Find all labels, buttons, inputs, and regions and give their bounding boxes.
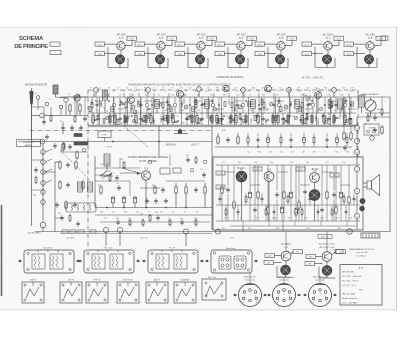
- svg-text:C92: C92: [248, 228, 251, 230]
- capacitor: [327, 117, 330, 119]
- svg-text:Tr 8: Tr 8: [368, 36, 373, 40]
- svg-text:C21: C21: [279, 87, 282, 89]
- resistor: [195, 103, 197, 108]
- wire to rails: [254, 165, 256, 206]
- junction dot: [119, 104, 120, 105]
- resistor: [185, 187, 187, 193]
- resistor: [298, 202, 300, 208]
- mid-left dots: [106, 207, 107, 208]
- resistor dark: [109, 116, 111, 123]
- trimmer capacitor: [173, 103, 177, 107]
- capacitor: [229, 116, 232, 118]
- svg-text:470: 470: [160, 212, 163, 214]
- capacitor: [142, 119, 145, 121]
- svg-text:56: 56: [288, 218, 290, 220]
- svg-text:C1: C1: [49, 99, 51, 101]
- capacitor: [189, 114, 192, 116]
- resistor: [82, 182, 84, 188]
- svg-text:7mV: 7mV: [98, 54, 103, 56]
- coil small: [219, 119, 222, 124]
- capacitor: [148, 107, 151, 109]
- capacitor: [194, 188, 198, 190]
- transistor: [324, 42, 332, 50]
- right column wires: [389, 97, 391, 232]
- junction dot: [200, 119, 201, 120]
- arrow into mixer: [122, 168, 139, 173]
- wire stub: [280, 133, 282, 136]
- transistor: [309, 190, 320, 201]
- capacitor: [94, 118, 97, 120]
- frame dash-dot right vertical: [357, 90, 359, 157]
- wire to rails: [283, 165, 285, 191]
- wires above Tr blocks: [285, 232, 287, 252]
- junction node o: [354, 188, 359, 193]
- trimmer: [132, 119, 135, 122]
- resistor: [247, 138, 249, 143]
- svg-text:C64: C64: [120, 159, 123, 161]
- svg-text:800 PK: 800 PK: [68, 280, 75, 282]
- band switch chain: [42, 144, 44, 222]
- resistor: [169, 220, 171, 225]
- svg-text:4k7: 4k7: [291, 151, 294, 153]
- resistor: [235, 116, 237, 123]
- wire vertical: [151, 97, 153, 113]
- svg-text:22: 22: [147, 110, 149, 112]
- svg-text:Fab. Tun: Fab. Tun: [140, 238, 148, 240]
- resistor: [301, 103, 303, 108]
- svg-text:0,2V: 0,2V: [336, 39, 341, 41]
- module block Fab. Tun: [78, 247, 139, 273]
- svg-text:CTX PO-MFU: CTX PO-MFU: [27, 233, 41, 235]
- svg-text:1: 1: [278, 296, 279, 298]
- coil small: [248, 102, 251, 107]
- DIN connector Mufa DIN picup: [267, 277, 300, 307]
- svg-text:F.M.: F.M.: [359, 289, 363, 291]
- measurement block Tr 2: [95, 32, 137, 67]
- wire component to rail: [301, 113, 303, 115]
- trimmer: [294, 116, 297, 119]
- resistor: [204, 187, 206, 193]
- trimmer capacitor: [284, 105, 288, 109]
- trimmer: [345, 119, 348, 122]
- trimmer capacitor: [133, 110, 137, 114]
- arrow marker: [297, 294, 300, 296]
- capacitor: [236, 103, 239, 105]
- capacitor: [320, 208, 324, 210]
- svg-text:3: 3: [320, 294, 321, 296]
- capacitor: [256, 114, 259, 116]
- capacitor: [233, 118, 236, 120]
- label box above: [318, 235, 332, 239]
- svg-text:ANTENA: ANTENA: [181, 279, 189, 282]
- resistor: [263, 103, 265, 108]
- connector square 100 PK: [22, 280, 44, 303]
- svg-text:10μ: 10μ: [136, 212, 139, 214]
- svg-text:680: 680: [182, 122, 185, 124]
- svg-text:4,5V: 4,5V: [255, 169, 260, 171]
- svg-text:R6: R6: [144, 87, 146, 89]
- capacitor: [186, 158, 190, 160]
- trimmer capacitor: [238, 105, 242, 109]
- svg-text:AC 180 K si/sau: AC 180 K si/sau: [319, 243, 335, 246]
- svg-text:PO. 520 – 1605 kHz: PO. 520 – 1605 kHz: [342, 276, 361, 278]
- arrow marker: [18, 260, 21, 262]
- transistor Tr.4: [315, 92, 322, 99]
- measurement block Tr 4: [175, 32, 217, 67]
- capacitor: [237, 210, 240, 212]
- svg-text:R91: R91: [222, 228, 225, 230]
- small box cluster: [160, 168, 170, 174]
- transistor leads osc: [145, 180, 147, 207]
- resistor: [233, 202, 235, 208]
- svg-text:R44: R44: [258, 151, 261, 153]
- wire stub: [127, 115, 129, 121]
- svg-text:C19: C19: [236, 94, 239, 96]
- AF transistor leads: [241, 182, 243, 221]
- transistor: [237, 42, 245, 50]
- mid band junction dots: [257, 146, 258, 147]
- svg-text:R49: R49: [346, 151, 349, 153]
- wire component to rail: [287, 113, 289, 115]
- series resistor: [78, 230, 84, 233]
- electrolytic capacitor: [267, 138, 270, 143]
- svg-text:AC180: AC180: [312, 168, 319, 171]
- junction node i: [40, 222, 46, 228]
- capacitor: [203, 102, 206, 104]
- svg-text:ALTC PK: ALTC PK: [208, 276, 216, 279]
- svg-text:4,7: 4,7: [256, 218, 259, 220]
- svg-text:cam. 50 mW: cam. 50 mW: [356, 252, 367, 254]
- capacitor: [285, 119, 288, 121]
- svg-text:ANTENA TELESCOP.: ANTENA TELESCOP.: [25, 84, 48, 87]
- svg-text:GAMA BANDA PORTELOR: GAMA BANDA PORTELOR: [349, 248, 374, 251]
- coil small: [111, 107, 114, 112]
- trimmer capacitor: [184, 105, 188, 109]
- svg-text:UCL: UCL: [347, 44, 352, 46]
- svg-text:0,2V: 0,2V: [129, 39, 134, 41]
- svg-text:0,2V: 0,2V: [249, 39, 254, 41]
- resistor: [225, 210, 227, 214]
- wire component to rail: [245, 113, 247, 115]
- scan mark left edge: [1, 205, 3, 296]
- resistor: [91, 103, 93, 108]
- trimmer capacitor: [328, 105, 332, 109]
- svg-text:4,5V: 4,5V: [309, 257, 314, 259]
- svg-text:C78: C78: [342, 162, 345, 164]
- capacitor: [275, 193, 279, 195]
- wire stub: [250, 118, 252, 123]
- resistor: [261, 100, 263, 105]
- wire component to rail: [333, 113, 335, 115]
- svg-text:L23: L23: [297, 87, 300, 89]
- svg-text:Tone Regl: Tone Regl: [226, 248, 236, 250]
- resistor: [254, 115, 256, 120]
- frequency table box: [340, 265, 382, 306]
- resistor: [265, 210, 267, 214]
- svg-text:L'ABSENCE DE SEMNAL: L'ABSENCE DE SEMNAL: [216, 76, 244, 79]
- svg-text:VOLT 7: VOLT 7: [191, 143, 200, 146]
- svg-text:AF 126: AF 126: [117, 32, 126, 36]
- frame dash-dot left vertical: [87, 90, 89, 247]
- svg-text:0,2V: 0,2V: [169, 39, 174, 41]
- svg-text:MF. 455 kHz: MF. 455 kHz: [342, 272, 354, 274]
- svg-text:C5: C5: [135, 87, 137, 89]
- transistor: [223, 85, 229, 91]
- capacitor: [239, 117, 242, 119]
- svg-text:C26: C26: [314, 94, 317, 96]
- svg-text:R61: R61: [33, 195, 36, 197]
- wire component to rail: [323, 113, 325, 115]
- junction dot: [289, 104, 290, 105]
- series resistor: [70, 230, 76, 233]
- svg-text:OC. 19 – 50 m: OC. 19 – 50 m: [342, 285, 356, 287]
- wire component to rail: [282, 113, 284, 115]
- second pot circle: [360, 206, 365, 211]
- capacitor: [161, 117, 164, 119]
- resistor: [326, 192, 328, 198]
- junction dot: [177, 120, 178, 121]
- transistor: [115, 55, 124, 64]
- svg-text:7mV: 7mV: [258, 54, 263, 56]
- capacitor: [139, 117, 142, 119]
- svg-text:2: 2: [289, 296, 290, 298]
- svg-text:470: 470: [336, 218, 339, 220]
- wire to rails: [276, 165, 278, 191]
- capacitor: [168, 103, 171, 105]
- svg-text:C17: C17: [243, 87, 246, 89]
- svg-text:FREQ. BALANCE: FREQ. BALANCE: [362, 93, 379, 96]
- svg-text:0,3V: 0,3V: [218, 187, 223, 189]
- transistor: [275, 55, 284, 64]
- variable capacitor with arrow: [100, 175, 113, 177]
- junction node q: [347, 229, 353, 235]
- capacitor: [202, 173, 206, 175]
- coil / IF transformer: [295, 100, 300, 109]
- resistor dark: [211, 116, 213, 123]
- svg-text:2k2: 2k2: [197, 122, 200, 124]
- svg-text:2,2: 2,2: [172, 212, 175, 214]
- svg-text:91: 91: [212, 122, 214, 124]
- trimmer: [158, 102, 161, 105]
- wire to rails: [281, 165, 283, 206]
- wire component to rail: [140, 113, 142, 115]
- svg-text:C11: C11: [171, 94, 174, 96]
- svg-text:C13: C13: [207, 87, 210, 89]
- rail mid RF row: [88, 112, 356, 114]
- transistor: [277, 42, 285, 50]
- resistor: [103, 119, 105, 124]
- svg-text:m. vol/max: m. vol/max: [356, 256, 366, 258]
- capacitor: [34, 168, 38, 170]
- junction node m: [354, 149, 359, 154]
- resistor: [381, 110, 383, 115]
- svg-text:62: 62: [287, 122, 289, 124]
- capacitor: [185, 117, 188, 119]
- electrolytic capacitor: [112, 197, 115, 203]
- svg-text:SCHEMA: SCHEMA: [19, 36, 44, 42]
- svg-text:Mufa DIN magn.: Mufa DIN magn.: [313, 277, 327, 279]
- svg-text:1k: 1k: [168, 218, 170, 220]
- diode symbol mid: [306, 95, 310, 101]
- svg-text:AF 125: AF 125: [197, 32, 206, 36]
- arrow marker: [303, 294, 306, 296]
- FM box: [98, 131, 111, 138]
- resistor: [381, 127, 383, 133]
- junction node a: [40, 113, 45, 118]
- connector square 800 PK: [60, 280, 82, 303]
- resistor: [150, 116, 152, 123]
- resistor: [343, 197, 345, 202]
- resistor: [313, 138, 315, 143]
- resistor dark: [230, 116, 232, 123]
- coil / IF transformer: [155, 100, 160, 109]
- capacitor: [180, 221, 184, 223]
- svg-text:1k: 1k: [148, 212, 150, 214]
- svg-text:TENSIUNEA MASURATA CU VOLTMETR: TENSIUNEA MASURATA CU VOLTMETRU ELECTRON…: [128, 84, 231, 87]
- wire stub: [181, 101, 183, 107]
- resistor: [280, 106, 282, 111]
- capacitor: [307, 103, 310, 105]
- label box: [253, 167, 262, 171]
- svg-text:AF 124: AF 124: [277, 32, 286, 36]
- capacitor: [257, 138, 260, 140]
- svg-text:220: 220: [224, 218, 227, 220]
- junction dot: [289, 115, 290, 116]
- svg-text:R6: R6: [145, 94, 147, 96]
- svg-text:1: 1: [314, 296, 315, 298]
- trimmer capacitor: [145, 103, 149, 107]
- capacitor: [60, 216, 64, 218]
- arrow marker: [78, 260, 81, 262]
- wire stub: [294, 99, 296, 104]
- svg-text:7mV: 7mV: [305, 54, 310, 56]
- arrow marker: [136, 260, 139, 262]
- capacitor: [226, 188, 230, 190]
- trimmer capacitor: [211, 103, 215, 107]
- resistor: [367, 116, 369, 121]
- svg-text:← MODULA: ← MODULA: [163, 143, 177, 146]
- wire component to rail: [328, 113, 330, 115]
- wire component to rail: [344, 113, 346, 115]
- coil small: [299, 107, 302, 112]
- svg-text:SO. 510 – 370 m: SO. 510 – 370 m: [342, 281, 358, 283]
- coil / IF transformer: [88, 182, 93, 192]
- series resistor: [90, 230, 96, 233]
- svg-text:L19: L19: [261, 87, 264, 89]
- transistor: [265, 85, 272, 92]
- junction node c: [41, 150, 46, 155]
- bottom rail double: [35, 231, 390, 233]
- trimmer capacitor: [241, 103, 245, 107]
- resistor: [100, 187, 102, 193]
- AF horizontal stubs: [225, 171, 235, 173]
- svg-text:2W: 2W: [267, 263, 270, 265]
- resistor dark: [272, 116, 274, 123]
- resistor: [109, 176, 111, 181]
- resistor: [171, 114, 173, 119]
- wire stub: [326, 133, 328, 136]
- resistor: [62, 144, 64, 150]
- svg-text:4: 4: [277, 302, 278, 304]
- svg-text:C25: C25: [315, 87, 318, 89]
- svg-text:UCL: UCL: [258, 44, 263, 46]
- svg-text:220: 220: [269, 151, 272, 153]
- resistor dark: [191, 116, 193, 123]
- junction node r: [103, 227, 108, 232]
- svg-text:1: 1: [244, 296, 245, 298]
- connector square PSF CW: [86, 280, 108, 303]
- junction dot: [218, 104, 219, 105]
- wire component to rail: [262, 113, 264, 115]
- wire to rails: [340, 165, 342, 191]
- connector square ANTENA: [174, 279, 196, 303]
- capacitor: [145, 199, 149, 201]
- wire stub: [160, 117, 162, 122]
- capacitor: [161, 188, 165, 190]
- svg-text:UCL: UCL: [218, 44, 223, 46]
- measurement block Tr 8: [344, 32, 386, 67]
- coil small: [138, 102, 141, 107]
- input coil hatch: [53, 85, 57, 93]
- svg-text:C76: C76: [306, 162, 309, 164]
- junction dot: [131, 115, 132, 116]
- resistor: [343, 133, 345, 139]
- small box top right corner: [381, 36, 388, 40]
- label box: [216, 185, 225, 189]
- full-height vertical wires: [99, 97, 101, 125]
- svg-text:0,2V: 0,2V: [209, 39, 214, 41]
- vertical wire mid: [158, 126, 160, 156]
- electrolytic capacitor: [290, 192, 293, 198]
- capacitor: [219, 197, 222, 199]
- frame dash-dot main top: [88, 89, 356, 91]
- wire vertical: [350, 97, 352, 113]
- svg-text:ACT PK: ACT PK: [321, 236, 329, 239]
- svg-text:R47: R47: [313, 151, 316, 153]
- svg-text:4n7: 4n7: [334, 110, 337, 112]
- junction dot: [311, 100, 312, 101]
- capacitor: [164, 199, 168, 201]
- DIN connector Mufa DIN alim.: [233, 277, 266, 307]
- resistor: [59, 182, 61, 188]
- arrow marker: [200, 260, 203, 262]
- wire component to rail: [230, 113, 232, 115]
- svg-text:SCHEMA REPREZENTARE SEMNALE: SCHEMA REPREZENTARE SEMNALE: [128, 156, 169, 159]
- resistor: [283, 119, 285, 124]
- svg-text:10μ: 10μ: [180, 218, 183, 220]
- svg-text:5: 5: [256, 302, 257, 304]
- capacitor: [226, 138, 230, 140]
- svg-text:2k2: 2k2: [128, 218, 131, 220]
- resistor: [245, 197, 247, 202]
- junction dot: [189, 104, 190, 105]
- rails mid-left: [95, 207, 212, 209]
- resistor: [237, 137, 239, 143]
- measurement block Tr10: [305, 243, 346, 278]
- wire to rails: [335, 165, 337, 206]
- wire component to rail: [119, 113, 121, 115]
- transistor: [155, 55, 164, 64]
- freq balance potentiometer: [365, 100, 376, 111]
- coil / IF transformer: [359, 95, 365, 107]
- wire component to rail: [124, 113, 126, 115]
- connector square DML PK101: [117, 280, 139, 303]
- coil / IF transformer: [205, 100, 210, 109]
- junction node t: [183, 229, 188, 234]
- svg-text:10n: 10n: [160, 116, 163, 118]
- svg-text:L3: L3: [117, 87, 119, 89]
- resistor: [196, 116, 198, 123]
